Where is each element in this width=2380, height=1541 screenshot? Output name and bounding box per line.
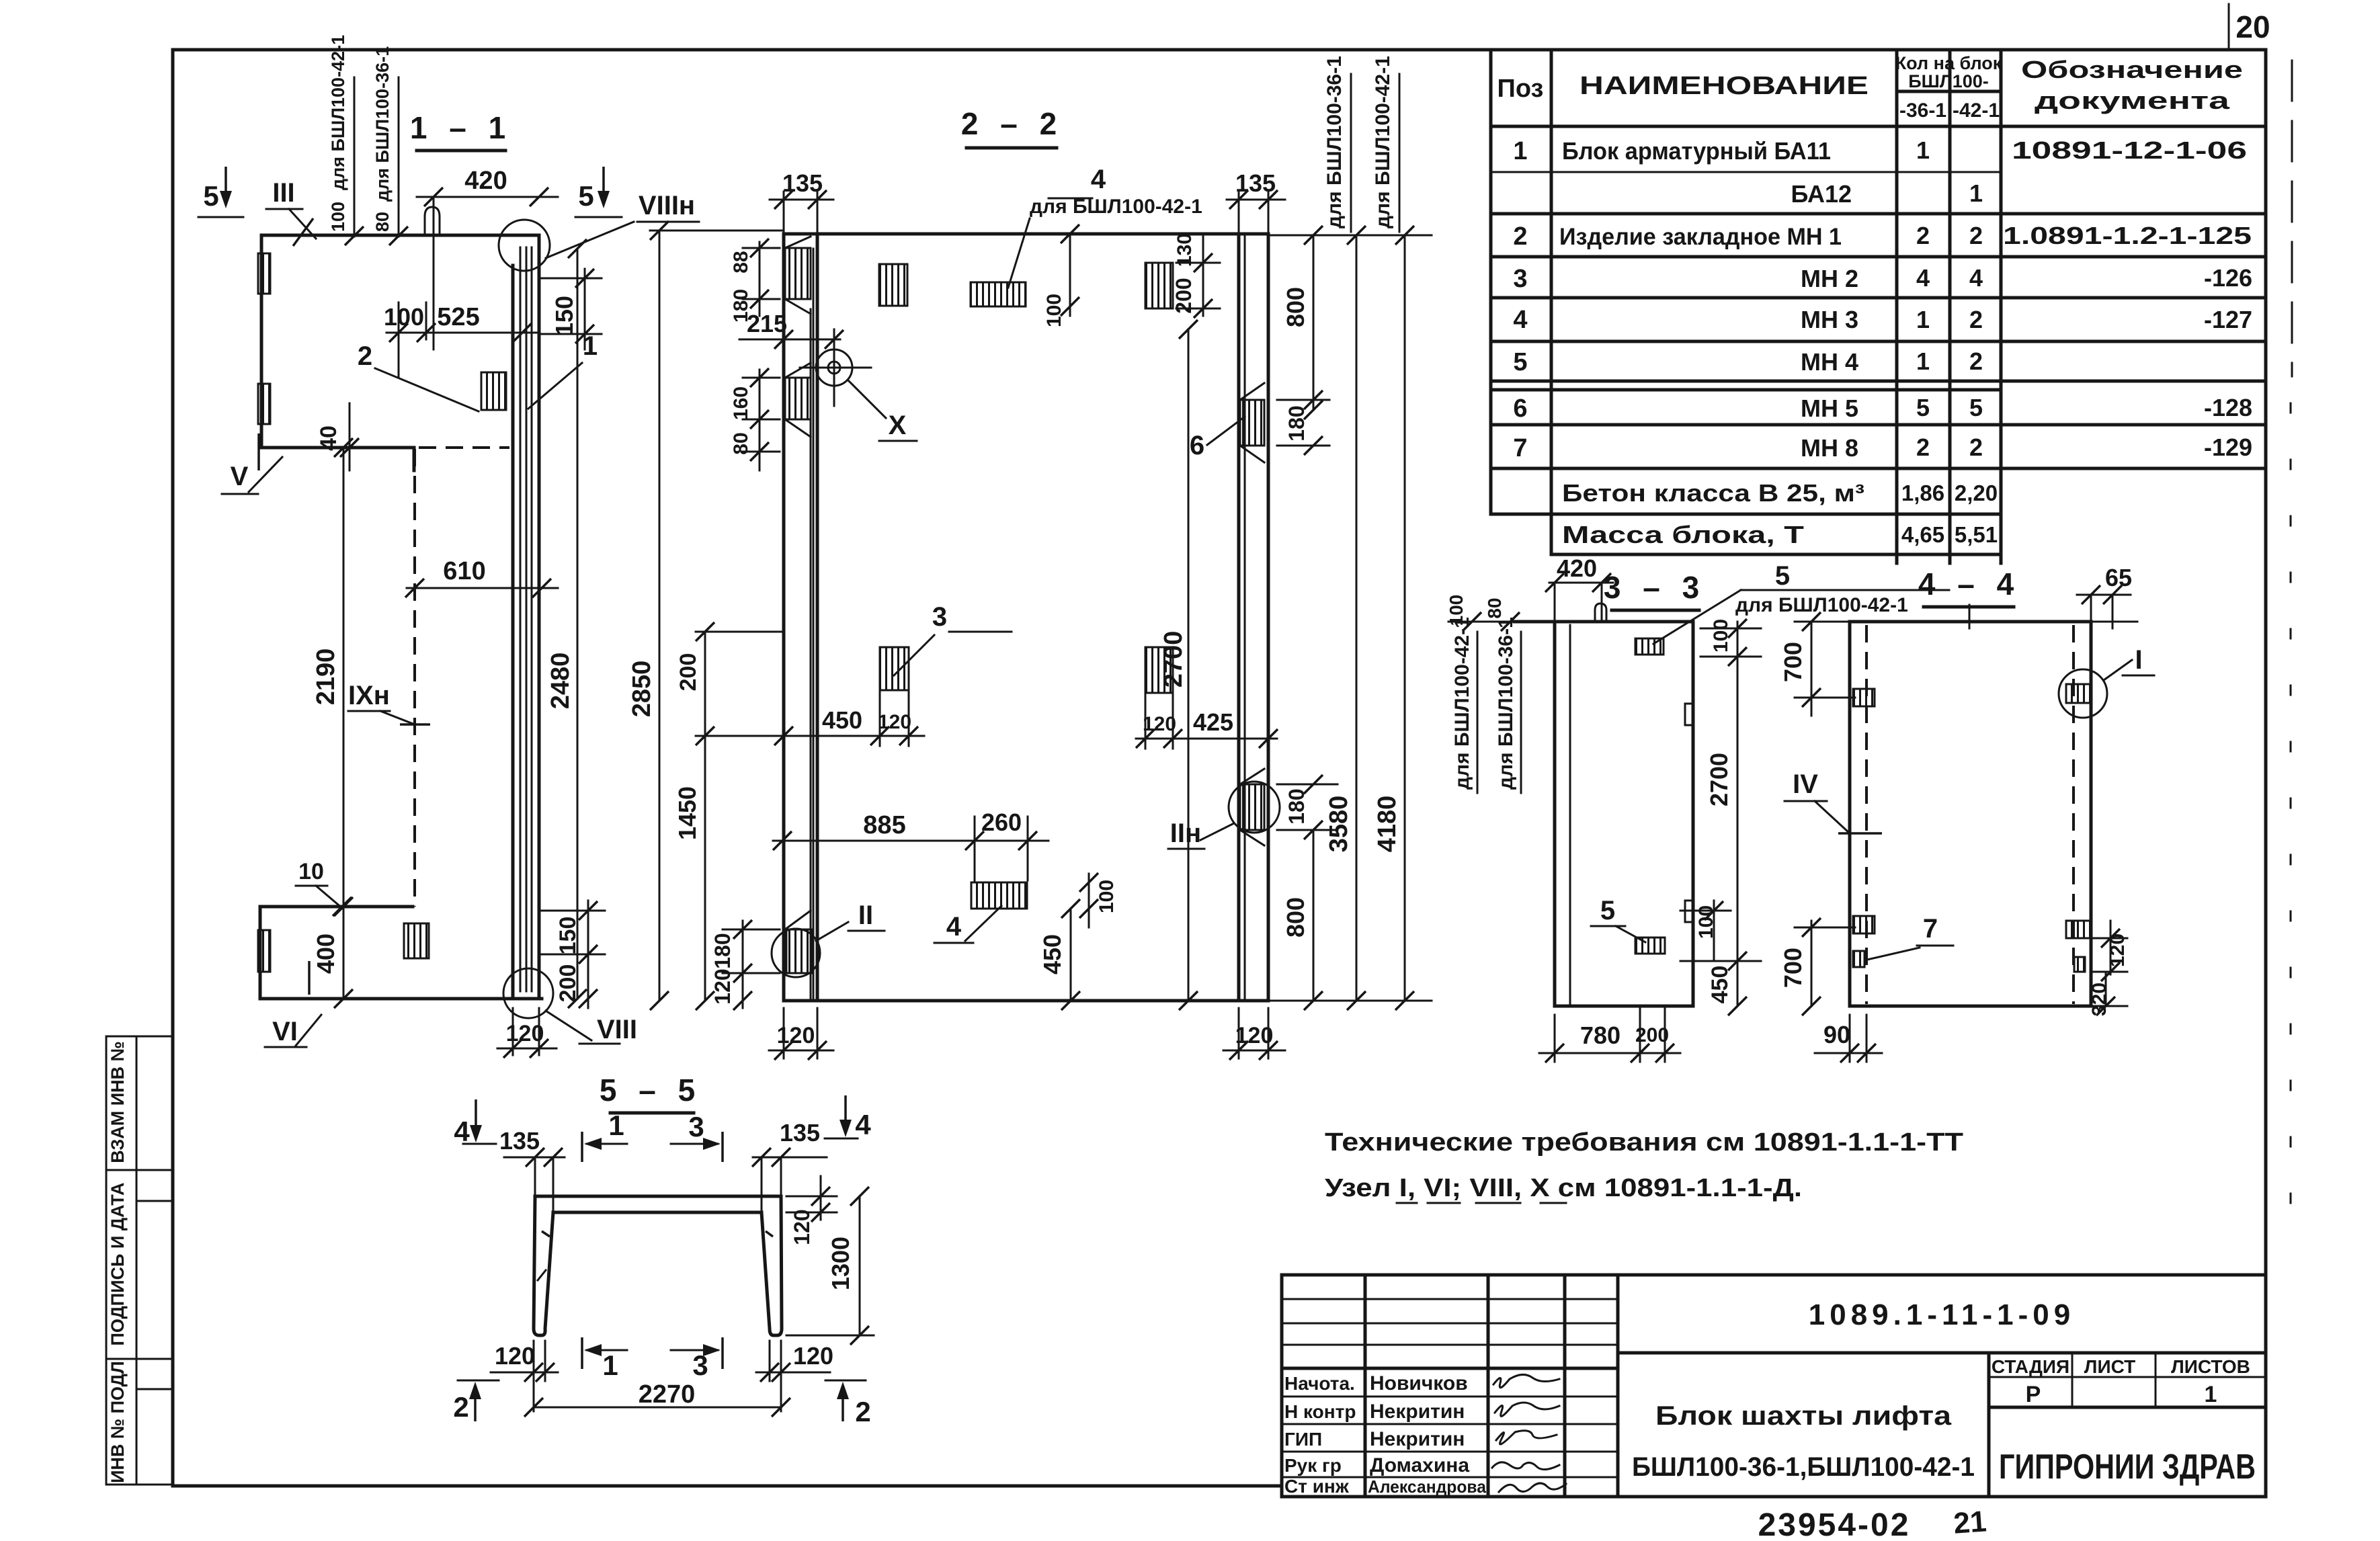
table row 5: МН4 xyxy=(1513,347,1983,376)
svg-text:3580: 3580 xyxy=(1325,796,1353,853)
svg-text:Р: Р xyxy=(2026,1382,2041,1407)
section 2-2 title xyxy=(961,106,1063,148)
svg-text:5: 5 xyxy=(578,180,593,212)
svg-text:120: 120 xyxy=(495,1342,535,1370)
dim 420 (3-3 top) xyxy=(1545,554,1613,622)
svg-text:2: 2 xyxy=(1916,222,1930,249)
stamp signatures xyxy=(1492,1374,1566,1492)
dim 100 (3-3 lower) xyxy=(1680,901,1761,970)
svg-text:3: 3 xyxy=(688,1111,704,1142)
rotated label 80 для БШЛ100-36-1 xyxy=(372,46,408,245)
rotated label 100 для БШЛ100-42-1 xyxy=(328,35,364,245)
dim 400 (foot) xyxy=(312,897,353,974)
floating embedded plate item 3 (lower) with label xyxy=(880,602,1012,690)
dim 450 (3-3 bottom) xyxy=(1707,961,1747,1015)
svg-text:СТАДИЯ: СТАДИЯ xyxy=(1992,1356,2069,1377)
svg-text:1,86: 1,86 xyxy=(1901,481,1944,505)
dim 100 (item 4 bottom) xyxy=(1079,873,1118,927)
4-4 right embedded plate (lower) xyxy=(2066,921,2091,938)
svg-text:2: 2 xyxy=(1969,433,1983,461)
label V with leader xyxy=(222,433,282,494)
svg-text:200: 200 xyxy=(1172,278,1196,313)
svg-text:20: 20 xyxy=(2235,9,2270,44)
section 4-4 body xyxy=(1850,622,2137,1006)
table row 4: МН3 xyxy=(1513,306,2252,334)
svg-text:Технические требования см 10: Технические требования см 10891-1.1-1-ТТ xyxy=(1325,1128,1963,1157)
svg-text:2: 2 xyxy=(1969,222,1983,249)
svg-text:2850: 2850 xyxy=(628,661,656,718)
svg-text:200: 200 xyxy=(675,653,701,692)
svg-text:Домахина: Домахина xyxy=(1370,1454,1469,1476)
dim 2270 (5-5 bottom) xyxy=(524,1380,790,1417)
svg-text:Изделие закладное МН 1: Изделие закладное МН 1 xyxy=(1559,224,1842,250)
svg-text:2: 2 xyxy=(855,1396,870,1427)
node circle X with leader xyxy=(800,329,917,441)
svg-text:ПОДПИСЬ И ДАТА: ПОДПИСЬ И ДАТА xyxy=(108,1182,128,1345)
table row 3: МН2 xyxy=(1513,264,2252,293)
svg-text:120: 120 xyxy=(710,968,735,1004)
table row 2: Изделие закладное МН1 xyxy=(1513,222,2252,251)
dim 100 (item 4 top) xyxy=(1043,224,1079,327)
svg-text:VIIIн: VIIIн xyxy=(639,191,695,220)
dim 2480 (wall height) xyxy=(546,239,587,1008)
left wall top embedded plate with chamfer xyxy=(785,237,811,314)
svg-text:10: 10 xyxy=(298,859,324,884)
dim 180 120 (node II left) xyxy=(710,920,780,1010)
svg-text:1: 1 xyxy=(608,1110,624,1141)
svg-text:МН 5: МН 5 xyxy=(1801,394,1858,422)
dim 65 (4-4 top right) xyxy=(2077,564,2132,628)
section mark 4 (5-5 left) xyxy=(454,1099,496,1147)
svg-text:для БШЛ100-42-1: для БШЛ100-42-1 xyxy=(328,35,348,190)
3-3 top embedded plate item 5 with long leader xyxy=(1635,561,1949,655)
dim 320 (4-4 right bottom) xyxy=(2088,972,2127,1016)
svg-text:БШЛ100-36-1,БШЛ100-42-1: БШЛ100-36-1,БШЛ100-42-1 xyxy=(1632,1452,1975,1482)
svg-text:МН 8: МН 8 xyxy=(1801,434,1858,462)
svg-text:1: 1 xyxy=(2205,1382,2217,1407)
svg-text:5 – 5: 5 – 5 xyxy=(600,1073,702,1108)
svg-text:ЛИСТ: ЛИСТ xyxy=(2084,1356,2135,1377)
svg-text:Некритин: Некритин xyxy=(1370,1428,1465,1450)
svg-text:4: 4 xyxy=(454,1116,470,1147)
svg-text:3 – 3: 3 – 3 xyxy=(1604,570,1706,605)
svg-text:ЛИСТОВ: ЛИСТОВ xyxy=(2171,1356,2250,1377)
svg-text:450: 450 xyxy=(1038,934,1066,974)
svg-text:2: 2 xyxy=(1916,433,1930,461)
svg-text:5: 5 xyxy=(1969,394,1983,421)
svg-text:700: 700 xyxy=(1779,948,1807,988)
dim 2700 (center) xyxy=(1159,320,1198,1010)
4-4 left embedded plate (upper) xyxy=(1853,689,1875,706)
label VI with leader xyxy=(265,961,321,1047)
dim 10 (foot) xyxy=(296,859,352,916)
svg-text:Начота.: Начота. xyxy=(1284,1373,1355,1394)
dim 100 525 (item 2) xyxy=(384,302,538,376)
section mark 1 (5-5 bottom) xyxy=(582,1337,627,1381)
label IV with leader xyxy=(1784,769,1882,833)
floating embedded plate item 4 (bottom) with label xyxy=(934,882,1027,943)
section mark 3 (5-5 top) xyxy=(671,1111,723,1162)
dim 800 (right wall, upper) xyxy=(1282,226,1323,419)
page number 20 xyxy=(2229,4,2270,47)
left sidebar stamp boxes xyxy=(106,1036,173,1485)
dim 2850 (left full height) xyxy=(628,221,783,1010)
svg-text:II: II xyxy=(858,901,873,930)
svg-text:5: 5 xyxy=(203,180,218,212)
svg-text:200: 200 xyxy=(555,964,581,1003)
dim 610 xyxy=(405,557,558,597)
svg-text:7: 7 xyxy=(1513,434,1527,462)
svg-text:2: 2 xyxy=(1513,222,1527,251)
dim 1300 (5-5 height) xyxy=(786,1187,874,1345)
svg-text:130: 130 xyxy=(1174,233,1196,267)
table row: Масса блока xyxy=(1562,521,1998,548)
svg-text:1450: 1450 xyxy=(673,786,701,840)
dim 160 80 (left wall, mid) xyxy=(730,368,780,470)
dim 120 (wall bottom width) xyxy=(497,1008,557,1058)
svg-text:4180: 4180 xyxy=(1373,796,1401,853)
svg-text:21: 21 xyxy=(1953,1505,1987,1540)
right wall embedded block (node IIн) xyxy=(1168,769,1280,849)
svg-text:МН 2: МН 2 xyxy=(1801,265,1858,292)
floating embedded plate (upper right) xyxy=(1145,263,1173,308)
technical requirements note line 2 xyxy=(1325,1174,1802,1203)
dim 135 (5-5 top left) xyxy=(499,1127,565,1212)
dim 3580 xyxy=(1325,226,1366,1010)
svg-text:2: 2 xyxy=(1969,347,1983,375)
dim 120 (left wall bottom) xyxy=(769,1008,833,1060)
svg-text:40: 40 xyxy=(316,425,341,451)
svg-text:150: 150 xyxy=(550,296,578,336)
svg-text:135: 135 xyxy=(780,1119,820,1147)
svg-text:100: 100 xyxy=(328,202,348,232)
dim 120 (5-5 web thickness) xyxy=(786,1176,837,1245)
embedded plate on head left edge (upper) xyxy=(258,253,270,294)
svg-text:для БШЛ100-42-1: для БШЛ100-42-1 xyxy=(1735,594,1908,616)
svg-text:НАИМЕНОВАНИЕ: НАИМЕНОВАНИЕ xyxy=(1579,72,1869,100)
title block outer box xyxy=(1282,1275,2266,1497)
svg-text:6: 6 xyxy=(1513,394,1527,423)
svg-text:Узел I, VI; VIII, X см 10891-: Узел I, VI; VIII, X см 10891-1.1-1-Д. xyxy=(1325,1174,1802,1202)
floating embedded plate (upper left, item 3) xyxy=(879,264,907,306)
3-3 right edge small embeds xyxy=(1685,704,1693,922)
floating embedded plate item 4 (top) with label xyxy=(971,165,1202,306)
embedded plate item 2 xyxy=(358,341,506,411)
stamp labels column xyxy=(1284,1373,1356,1497)
svg-text:180: 180 xyxy=(1284,788,1309,824)
svg-text:4 – 4: 4 – 4 xyxy=(1918,567,2020,601)
svg-text:для БШЛ100-42-1: для БШЛ100-42-1 xyxy=(1030,196,1202,218)
svg-text:450: 450 xyxy=(822,706,862,734)
dim 2190 (left height) xyxy=(312,438,353,1008)
table row 1: Блок арматурный БА11 xyxy=(1513,136,2247,165)
svg-text:4,65: 4,65 xyxy=(1901,522,1944,547)
svg-text:4: 4 xyxy=(1969,264,1983,292)
svg-text:X: X xyxy=(889,411,907,440)
dim 4180 xyxy=(1268,226,1432,1010)
svg-text:120: 120 xyxy=(1143,713,1176,735)
svg-text:Поз: Поз xyxy=(1497,75,1544,103)
svg-text:1: 1 xyxy=(602,1349,618,1381)
svg-text:525: 525 xyxy=(437,303,479,331)
4-4 item 7 embed (left) xyxy=(1853,951,1864,967)
section 2-2 right wall xyxy=(1239,235,1268,1001)
svg-text:420: 420 xyxy=(464,167,507,195)
svg-text:10891-12-1-06: 10891-12-1-06 xyxy=(2012,136,2247,164)
dim 135 (left wall top) xyxy=(770,169,833,234)
section 3-3 body xyxy=(1514,622,1693,1006)
svg-text:Некритин: Некритин xyxy=(1370,1401,1465,1423)
svg-text:5,51: 5,51 xyxy=(1955,522,1998,547)
section 2-2 top edge xyxy=(784,233,1268,236)
dim 90 (4-4 bottom) xyxy=(1815,1015,1882,1063)
dim 88 180 (left wall, upper) xyxy=(730,239,780,323)
svg-text:120: 120 xyxy=(777,1023,815,1048)
stamp names column xyxy=(1368,1372,1487,1497)
svg-text:400: 400 xyxy=(312,933,339,974)
embedded plate on foot (item) xyxy=(404,923,429,958)
svg-text:4: 4 xyxy=(946,912,962,942)
svg-text:215: 215 xyxy=(747,310,787,337)
rotated label для БШЛ100-36-1 (3-3 left) xyxy=(1495,617,1521,793)
svg-text:БШЛ100-: БШЛ100- xyxy=(1908,71,1989,91)
svg-text:-128: -128 xyxy=(2204,394,2252,421)
bottom archive numbers xyxy=(1758,1505,1988,1541)
svg-text:Александрова: Александрова xyxy=(1368,1476,1487,1497)
svg-text:Новичков: Новичков xyxy=(1370,1372,1468,1394)
floating embedded plate (mid right) xyxy=(1145,647,1173,693)
section 2-2 bottom edge xyxy=(784,999,1268,1003)
svg-text:1: 1 xyxy=(1916,347,1930,375)
svg-text:Н контр: Н контр xyxy=(1284,1401,1356,1422)
label IXн with leader xyxy=(348,681,430,724)
svg-text:90: 90 xyxy=(1823,1021,1850,1048)
svg-text:2: 2 xyxy=(358,341,372,371)
svg-text:700: 700 xyxy=(1779,642,1807,682)
table row 1b: БА12 xyxy=(1791,179,1983,208)
embedded plate on foot left edge xyxy=(258,930,270,972)
section mark 2 (5-5 bottom right) xyxy=(825,1380,871,1427)
svg-text:для БШЛ100-36-1: для БШЛ100-36-1 xyxy=(372,46,393,202)
svg-text:2270: 2270 xyxy=(639,1380,696,1409)
svg-text:Блок арматурный БА11: Блок арматурный БА11 xyxy=(1562,137,1831,165)
parts list table grid xyxy=(1491,50,2266,563)
svg-text:5: 5 xyxy=(1775,561,1790,591)
svg-text:5: 5 xyxy=(1600,896,1615,925)
svg-text:1300: 1300 xyxy=(827,1237,854,1290)
svg-text:6: 6 xyxy=(1190,431,1204,460)
svg-text:IXн: IXн xyxy=(348,681,390,710)
dim 200 (left) xyxy=(675,622,783,739)
svg-text:800: 800 xyxy=(1282,287,1309,327)
svg-text:420: 420 xyxy=(1557,554,1597,582)
svg-text:-129: -129 xyxy=(2204,433,2252,461)
svg-text:260: 260 xyxy=(981,808,1022,836)
svg-text:120: 120 xyxy=(790,1209,814,1245)
stage cells xyxy=(1992,1356,2250,1407)
dim 120 425 (mid right) xyxy=(1136,693,1278,749)
svg-text:100: 100 xyxy=(1710,619,1732,653)
svg-text:100: 100 xyxy=(1043,294,1065,327)
svg-text:5: 5 xyxy=(1513,348,1527,376)
svg-text:3: 3 xyxy=(692,1349,708,1381)
dim 800 (right wall, lower) xyxy=(1282,830,1323,1010)
section 1-1 wall edges xyxy=(513,235,539,999)
right wall embedded block item 6 xyxy=(1190,383,1264,462)
svg-text:-42-1: -42-1 xyxy=(1953,99,2000,122)
dim 700 (4-4 upper) xyxy=(1779,612,1855,716)
svg-text:23954-02: 23954-02 xyxy=(1758,1507,1911,1541)
svg-text:VIII: VIII xyxy=(597,1015,637,1044)
section 2-2 left wall xyxy=(784,234,817,1001)
dim 420 (head top) xyxy=(417,167,558,349)
svg-text:2 – 2: 2 – 2 xyxy=(961,106,1063,141)
table row: Бетон класса В25 xyxy=(1562,479,1998,507)
dim 100 (3-3 upper right) xyxy=(1700,619,1761,666)
dim 135 (5-5 top right) xyxy=(752,1119,827,1212)
svg-text:88: 88 xyxy=(730,251,752,273)
svg-text:450: 450 xyxy=(1707,966,1733,1004)
svg-text:3: 3 xyxy=(932,602,947,632)
dim 135 (right wall top) xyxy=(1227,169,1285,235)
section 1-1 lifting loop xyxy=(425,207,440,235)
section 4-4 title xyxy=(1918,567,2020,607)
svg-text:800: 800 xyxy=(1282,897,1309,938)
table row 6: МН5 xyxy=(1513,394,2252,423)
svg-text:120: 120 xyxy=(878,711,911,733)
section 1-1 head outline xyxy=(261,235,539,470)
title block grid xyxy=(1282,1275,2266,1497)
svg-text:320: 320 xyxy=(2088,983,2110,1016)
dim 780 200 (3-3 bottom) xyxy=(1539,1008,1680,1063)
svg-text:80: 80 xyxy=(372,212,393,232)
right margin damaged scan line xyxy=(2291,60,2292,1250)
section mark 4 (5-5 right) xyxy=(825,1095,871,1140)
svg-text:Кол на блок: Кол на блок xyxy=(1895,53,2002,73)
dim 885 260 xyxy=(773,808,1049,880)
svg-text:780: 780 xyxy=(1580,1022,1620,1049)
svg-text:425: 425 xyxy=(1193,708,1233,736)
dim 150 (upper wall) xyxy=(542,269,602,349)
svg-text:200: 200 xyxy=(1635,1024,1669,1046)
dim 450 (bottom center) xyxy=(1038,899,1080,1010)
svg-text:80: 80 xyxy=(730,432,752,454)
svg-text:135: 135 xyxy=(499,1127,540,1155)
left wall bottom embedded plate (node II) xyxy=(772,901,885,977)
svg-text:III: III xyxy=(272,178,294,208)
svg-text:120: 120 xyxy=(506,1021,544,1046)
svg-text:4: 4 xyxy=(1091,165,1106,194)
svg-text:VI: VI xyxy=(272,1017,298,1046)
svg-text:ИНВ № ПОДЛ: ИНВ № ПОДЛ xyxy=(108,1361,128,1483)
svg-text:1089.1-11-1-09: 1089.1-11-1-09 xyxy=(1809,1298,2075,1331)
svg-text:для БШЛ100-42-1: для БШЛ100-42-1 xyxy=(1451,617,1473,790)
svg-text:I: I xyxy=(2135,645,2142,675)
svg-text:120: 120 xyxy=(1235,1023,1274,1048)
svg-text:2: 2 xyxy=(1969,306,1983,333)
section 1-1 hidden dashed lines xyxy=(415,448,509,907)
svg-text:160: 160 xyxy=(730,386,752,420)
svg-text:3: 3 xyxy=(1513,265,1527,293)
node circle VIII (wall bottom) xyxy=(503,968,637,1044)
svg-text:100: 100 xyxy=(1695,905,1717,939)
3-3 bottom embedded plate item 5 xyxy=(1591,896,1665,954)
left wall middle embedded plate with chamfer xyxy=(785,363,811,437)
svg-text:документа: документа xyxy=(2035,87,2230,114)
svg-text:4: 4 xyxy=(1513,306,1527,334)
svg-text:2700: 2700 xyxy=(1705,753,1733,806)
svg-text:Масса блока, Т: Масса блока, Т xyxy=(1562,521,1804,548)
rotated label для БШЛ100-42-1 (right of 2-2) xyxy=(1372,56,1399,232)
4-4 top tick mark xyxy=(1969,605,1971,628)
node circle I (4-4 top right) xyxy=(2059,645,2154,718)
svg-text:МН 3: МН 3 xyxy=(1801,306,1858,333)
svg-text:V: V xyxy=(231,462,249,491)
section 1-1 title xyxy=(410,110,512,151)
svg-text:100: 100 xyxy=(1096,880,1118,913)
svg-text:2480: 2480 xyxy=(546,653,575,710)
svg-text:150: 150 xyxy=(555,917,581,955)
dim 450 120 (item 3 lower) xyxy=(774,690,924,746)
dim 2700 (3-3) xyxy=(1705,657,1737,961)
svg-text:1.0891-1.2-1-125: 1.0891-1.2-1-125 xyxy=(2003,222,2252,249)
dim 215 xyxy=(739,310,844,349)
dim 150 200 (wall bottom) xyxy=(542,901,605,1008)
svg-text:Бетон класса В 25, м³: Бетон класса В 25, м³ xyxy=(1562,479,1864,507)
svg-text:120: 120 xyxy=(793,1342,833,1370)
svg-text:МН 4: МН 4 xyxy=(1801,348,1858,376)
dim 100 80 (3-3 top left) xyxy=(1446,595,1555,631)
section 1-1 bottom foot xyxy=(260,907,542,999)
dim 1450 (left) xyxy=(673,726,783,1010)
svg-text:IIн: IIн xyxy=(1170,819,1201,848)
svg-text:ГИПРОНИИ ЗДРАВ: ГИПРОНИИ ЗДРАВ xyxy=(1999,1448,2256,1487)
svg-text:Блок шахты лифта: Блок шахты лифта xyxy=(1655,1401,1952,1431)
svg-text:1: 1 xyxy=(1513,137,1527,165)
svg-text:180: 180 xyxy=(710,933,735,968)
svg-text:Рук гр: Рук гр xyxy=(1284,1455,1342,1476)
section 3-3 lifting loop xyxy=(1595,603,1606,622)
svg-text:БА12: БА12 xyxy=(1791,180,1852,208)
5-5 leg tick marks xyxy=(538,1231,773,1280)
dim 130 200 (upper right block) xyxy=(1172,233,1220,318)
svg-text:1: 1 xyxy=(1916,306,1930,333)
svg-text:1: 1 xyxy=(1969,179,1983,207)
section mark 2 (5-5 bottom left) xyxy=(453,1380,499,1423)
svg-text:для БШЛ100-36-1: для БШЛ100-36-1 xyxy=(1323,56,1346,228)
svg-text:Ст инж: Ст инж xyxy=(1284,1476,1350,1497)
node circle VIIIн xyxy=(499,191,699,271)
label III with leader xyxy=(266,178,316,246)
dim 180 (item 6) xyxy=(1277,390,1329,455)
section mark 3 (5-5 bottom) xyxy=(671,1337,723,1381)
svg-text:7: 7 xyxy=(1923,914,1938,944)
label 1 (wall) with leader xyxy=(528,331,598,409)
svg-text:-36-1: -36-1 xyxy=(1899,99,1946,122)
svg-text:для БШЛ100-36-1: для БШЛ100-36-1 xyxy=(1495,617,1517,790)
dim 120 (5-5 bottom right) xyxy=(756,1341,833,1411)
table header texts xyxy=(1497,53,2243,122)
svg-text:ВЗАМ ИНВ №: ВЗАМ ИНВ № xyxy=(108,1041,128,1163)
label 7 with leader xyxy=(1867,914,1953,960)
4-4 left embedded plate (lower) xyxy=(1853,916,1875,933)
svg-text:1 – 1: 1 – 1 xyxy=(410,110,512,145)
svg-text:-126: -126 xyxy=(2204,264,2252,292)
svg-text:100: 100 xyxy=(384,303,424,331)
svg-text:для БШЛ100-42-1: для БШЛ100-42-1 xyxy=(1372,56,1394,228)
section 3-3 title xyxy=(1604,570,1706,610)
4-4 small embed right bottom xyxy=(2074,957,2085,972)
